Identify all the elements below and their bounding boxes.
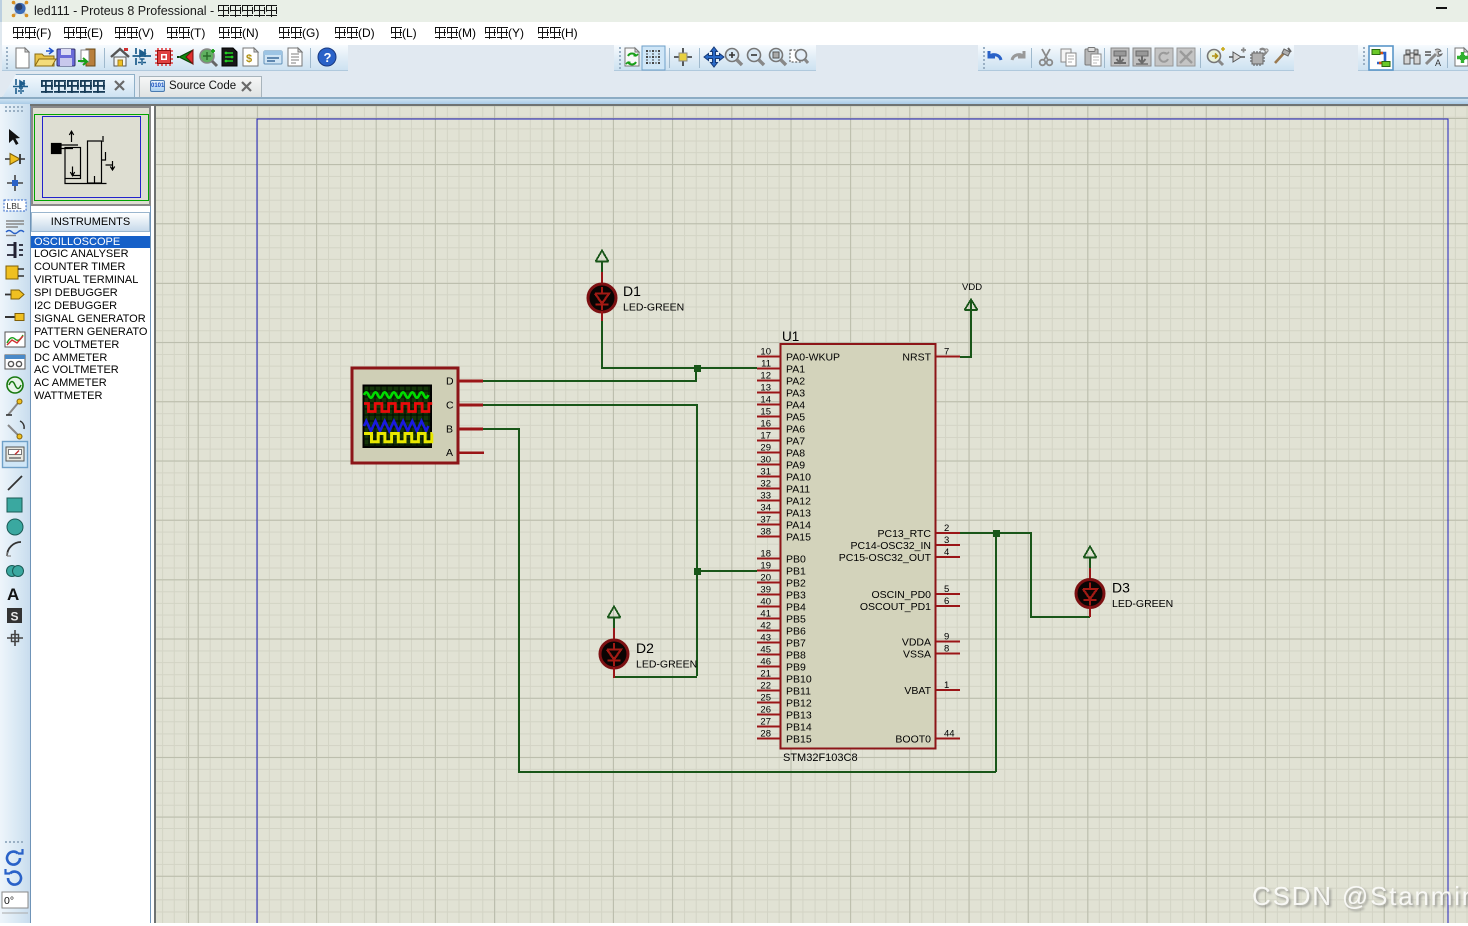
svg-text:LBL: LBL <box>7 201 22 211</box>
svg-text:39: 39 <box>760 585 771 596</box>
svg-text:14: 14 <box>760 395 771 406</box>
zoom in <box>726 49 743 66</box>
svg-text:LED-GREEN: LED-GREEN <box>636 659 697 671</box>
wire label tool <box>4 200 26 211</box>
voltage probe tool <box>6 399 22 415</box>
component tool <box>5 154 25 165</box>
left panel <box>30 106 151 923</box>
svg-text:U1: U1 <box>782 329 799 344</box>
rotate angle field <box>2 892 28 913</box>
D1 body <box>588 284 616 312</box>
wire junction C to PC13 stub <box>960 532 996 534</box>
svg-text:PA3: PA3 <box>786 388 805 400</box>
wire NRST to VDD <box>960 310 971 358</box>
op-amp U1 microcontroller body <box>781 329 936 764</box>
U1 pin 13 PA3 <box>757 383 805 400</box>
svg-text:PA7: PA7 <box>786 436 805 448</box>
LED D1 <box>588 251 684 322</box>
svg-text:4: 4 <box>944 547 949 558</box>
virtual instrument tool selected <box>3 442 28 468</box>
svg-text:10: 10 <box>760 347 771 358</box>
svg-text:1: 1 <box>944 680 949 691</box>
svg-text:6: 6 <box>944 596 949 607</box>
svg-text:A: A <box>446 447 453 459</box>
save <box>57 49 75 66</box>
origin marker tool <box>7 630 23 646</box>
U1 pin 32 PA11 <box>757 479 810 496</box>
svg-text:C: C <box>446 400 454 412</box>
wire scope B to bottom rail <box>483 428 996 772</box>
oscilloscope body <box>352 368 484 463</box>
svg-text:43: 43 <box>760 633 771 644</box>
svg-text:40: 40 <box>760 597 771 608</box>
design explorer <box>222 48 237 66</box>
left toolbar <box>0 104 30 923</box>
2d box tool <box>7 498 22 512</box>
svg-text:PB2: PB2 <box>786 578 806 590</box>
svg-text:OSCIN_PD0: OSCIN_PD0 <box>871 589 931 601</box>
title bar <box>0 0 1468 22</box>
bus tool <box>7 242 23 258</box>
D2 body <box>600 640 628 668</box>
decompose <box>1250 49 1268 66</box>
wire rail up to junction C <box>995 533 997 772</box>
copy <box>1061 49 1076 66</box>
wire junction C to D3 <box>996 532 1090 617</box>
wire junction B to PB1 <box>697 570 757 572</box>
undo <box>989 51 1001 60</box>
svg-text:PA0-WKUP: PA0-WKUP <box>786 352 840 364</box>
U1 pin 8 VSSA <box>903 644 960 661</box>
svg-text:$: $ <box>246 53 252 65</box>
tab bar <box>0 71 1468 98</box>
U1 pin 42 PB6 <box>757 621 806 638</box>
graph tool <box>5 332 25 347</box>
waveform red square <box>364 404 432 412</box>
cut <box>1040 49 1053 65</box>
2d arc tool <box>7 542 21 556</box>
svg-text:PB13: PB13 <box>786 710 812 722</box>
Source Code tab <box>139 76 262 98</box>
node C junction <box>993 530 1000 537</box>
scope pin C stub <box>458 404 483 407</box>
svg-text:PB14: PB14 <box>786 722 812 734</box>
sheet border <box>257 119 1448 923</box>
waveform green sine <box>364 392 428 398</box>
selection cursor tool <box>9 129 20 145</box>
tape recorder tool <box>5 355 25 369</box>
block rotate disabled <box>1155 48 1173 66</box>
svg-text:3: 3 <box>944 535 949 546</box>
svg-text:34: 34 <box>760 503 771 514</box>
svg-text:PA1: PA1 <box>786 364 805 376</box>
zoom area <box>790 50 808 64</box>
svg-text:28: 28 <box>760 729 771 740</box>
svg-text:11: 11 <box>761 359 771 370</box>
U1 pin 37 PA14 <box>757 515 811 532</box>
svg-text:LED-GREEN: LED-GREEN <box>1112 598 1173 610</box>
U1 pin 2 PC13_RTC <box>878 523 961 540</box>
LED D2 <box>600 607 697 679</box>
svg-text:PB1: PB1 <box>786 566 806 578</box>
svg-text:PA9: PA9 <box>786 460 805 472</box>
power terminal above D3 <box>1084 547 1097 570</box>
pan <box>704 47 724 67</box>
U1 pin 11 PA1 <box>757 359 805 376</box>
svg-text:PA14: PA14 <box>786 520 811 532</box>
svg-text:45: 45 <box>760 645 771 656</box>
terminal tool <box>5 290 24 299</box>
svg-text:27: 27 <box>760 717 771 728</box>
power terminal above D2 <box>608 607 621 630</box>
U1 pin 16 PA6 <box>757 419 805 436</box>
svg-text:20: 20 <box>760 573 771 584</box>
svg-text:PA8: PA8 <box>786 448 805 460</box>
svg-text:VDD: VDD <box>962 282 982 293</box>
2d text tool <box>7 585 19 604</box>
electrical check <box>264 51 282 64</box>
origin <box>674 48 692 66</box>
svg-text:33: 33 <box>760 491 771 502</box>
U1 pin 44 BOOT0 <box>895 729 960 746</box>
U1 pin 19 PB1 <box>757 561 806 578</box>
svg-text:42: 42 <box>760 621 771 632</box>
exit/import <box>78 49 95 66</box>
block delete disabled <box>1177 48 1195 66</box>
block move <box>1133 48 1151 66</box>
svg-text:38: 38 <box>760 527 771 538</box>
svg-text:7: 7 <box>944 347 949 358</box>
svg-text:0°: 0° <box>4 895 14 907</box>
svg-text:PB6: PB6 <box>786 626 806 638</box>
2d symbol tool <box>7 608 22 624</box>
svg-text:VDDA: VDDA <box>902 637 931 649</box>
svg-text:37: 37 <box>760 515 771 526</box>
U1 pin 29 PA8 <box>757 443 805 460</box>
U1 pin 38 PA15 <box>757 527 811 544</box>
svg-text:13: 13 <box>760 383 771 394</box>
U1 pin 43 PB7 <box>757 633 806 650</box>
svg-text:19: 19 <box>760 561 771 572</box>
menu bar <box>0 22 1468 45</box>
refresh <box>625 48 639 66</box>
help <box>318 48 336 66</box>
D2 anode lead <box>613 628 615 640</box>
svg-text:PB15: PB15 <box>786 734 812 746</box>
svg-text:30: 30 <box>760 455 771 466</box>
U1 pin 31 PA10 <box>757 467 811 484</box>
svg-text:PB7: PB7 <box>786 638 806 650</box>
svg-text:PA5: PA5 <box>786 412 805 424</box>
svg-text:21: 21 <box>760 669 771 680</box>
svg-text:B: B <box>446 424 453 436</box>
schematic capture <box>133 48 152 65</box>
svg-text:46: 46 <box>760 657 771 668</box>
svg-text:VBAT: VBAT <box>904 685 931 697</box>
generator tool <box>7 377 23 393</box>
svg-text:PC15-OSC32_OUT: PC15-OSC32_OUT <box>839 552 932 564</box>
U1 pin 30 PA9 <box>757 455 805 472</box>
svg-text:A: A <box>1435 58 1441 68</box>
D3 body <box>1076 580 1104 608</box>
pcb layout <box>155 48 173 66</box>
svg-text:PB8: PB8 <box>786 650 806 662</box>
drag handles <box>6 47 1365 69</box>
block copy <box>1111 48 1129 66</box>
open <box>35 48 56 66</box>
U1 pin 10 PA0-WKUP <box>757 347 840 364</box>
svg-text:OSCOUT_PD1: OSCOUT_PD1 <box>860 601 931 613</box>
svg-text:32: 32 <box>760 479 771 490</box>
goto search <box>1208 47 1226 65</box>
toolbar <box>0 45 1468 71</box>
LED D3 <box>1076 547 1173 618</box>
svg-text:PB12: PB12 <box>786 698 812 710</box>
svg-text:PA10: PA10 <box>786 472 811 484</box>
svg-text:D2: D2 <box>636 640 654 656</box>
U1 pin 7 NRST <box>902 347 960 364</box>
U1 pin 12 PA2 <box>757 371 805 388</box>
zoom fit <box>770 49 787 66</box>
svg-text:2: 2 <box>944 523 949 534</box>
svg-text:44: 44 <box>944 729 955 740</box>
svg-text:D1: D1 <box>623 283 641 299</box>
svg-text:BOOT0: BOOT0 <box>895 734 931 746</box>
oscilloscope screen <box>364 386 432 448</box>
U1 pin 34 PA13 <box>757 503 811 520</box>
svg-text:LED-GREEN: LED-GREEN <box>623 302 684 314</box>
svg-text:PB5: PB5 <box>786 614 806 626</box>
grid toggle pressed <box>642 46 665 70</box>
svg-text:PB4: PB4 <box>786 602 806 614</box>
U1 pin 45 PB8 <box>757 645 806 662</box>
U1 pin 25 PB12 <box>757 693 812 710</box>
svg-text:D: D <box>446 376 454 388</box>
U1 pin 22 PB11 <box>757 681 811 698</box>
wire D1 to PA1 <box>601 320 757 368</box>
U1 pin 46 PB9 <box>757 657 806 674</box>
separator <box>5 841 23 843</box>
svg-text:22: 22 <box>760 681 771 692</box>
svg-text:41: 41 <box>760 609 771 620</box>
make device <box>1275 48 1291 63</box>
3d viewer <box>177 50 193 64</box>
svg-text:PB10: PB10 <box>786 674 812 686</box>
D3 anode lead <box>1089 568 1091 580</box>
canvas <box>154 106 1468 923</box>
svg-text:26: 26 <box>760 705 771 716</box>
ares <box>200 49 217 66</box>
2d line tool <box>8 476 22 490</box>
U1 pin 1 VBAT <box>904 680 960 697</box>
svg-text:17: 17 <box>760 431 771 442</box>
D2 cathode lead <box>613 667 615 678</box>
node A junction <box>694 365 701 372</box>
U1 pin 40 PB4 <box>757 597 806 614</box>
binoculars <box>1404 50 1420 64</box>
instruments list <box>31 236 150 926</box>
add component <box>1229 48 1246 63</box>
wire scope C down to D2 <box>483 404 697 677</box>
selected nav icon <box>1369 46 1393 70</box>
svg-text:25: 25 <box>760 693 771 704</box>
U1 pin 4 PC15-OSC32_OUT <box>839 547 960 564</box>
wire scope D to junction A <box>483 368 696 381</box>
svg-text:15: 15 <box>760 407 771 418</box>
svg-text:PB9: PB9 <box>786 662 806 674</box>
current probe tool <box>8 421 24 439</box>
D1 cathode lead <box>601 311 603 321</box>
svg-text:STM32F103C8: STM32F103C8 <box>783 752 858 764</box>
U1 pin 17 PA7 <box>757 431 805 448</box>
svg-text:PA11: PA11 <box>786 484 810 496</box>
svg-text:PB11: PB11 <box>786 686 811 698</box>
instruments header <box>31 212 150 232</box>
svg-text:PA2: PA2 <box>786 376 805 388</box>
2d path tool <box>7 566 24 577</box>
waveform blue sine <box>364 421 428 431</box>
svg-text:PC13_RTC: PC13_RTC <box>878 528 932 540</box>
device pin tool <box>5 314 24 321</box>
U1 pin 27 PB14 <box>757 717 812 734</box>
D1 anode lead <box>601 272 603 284</box>
svg-text:PA6: PA6 <box>786 424 805 436</box>
svg-text:29: 29 <box>760 443 771 454</box>
watermark <box>1252 881 1468 912</box>
2d circle tool <box>7 519 23 535</box>
paste <box>1085 48 1101 67</box>
svg-text:PB0: PB0 <box>786 554 806 566</box>
junction dot tool <box>7 175 23 191</box>
U1 pin 21 PB10 <box>757 669 812 686</box>
new sheet <box>1455 48 1468 66</box>
U1 pin 18 PB0 <box>757 549 806 566</box>
svg-text:D3: D3 <box>1112 580 1130 596</box>
scope pin B stub <box>458 428 483 431</box>
power terminal VDD <box>965 300 978 311</box>
svg-text:18: 18 <box>760 549 771 560</box>
text doc <box>288 48 302 66</box>
rotate ccw control <box>6 869 21 885</box>
U1 pin 28 PB15 <box>757 729 812 746</box>
zoom out <box>748 49 765 66</box>
svg-text:?: ? <box>324 50 332 65</box>
svg-text:PA12: PA12 <box>786 496 811 508</box>
node B junction <box>694 568 701 575</box>
U1 pin 3 PC14-OSC32_IN <box>850 535 960 552</box>
U1 pin 15 PA5 <box>757 407 805 424</box>
svg-text:VSSA: VSSA <box>903 649 931 661</box>
svg-text:8: 8 <box>944 644 949 655</box>
home <box>111 48 129 66</box>
U1 pin 39 PB3 <box>757 585 806 602</box>
U1 pin 20 PB2 <box>757 573 806 590</box>
wrench A <box>1425 49 1442 68</box>
svg-text:PC14-OSC32_IN: PC14-OSC32_IN <box>850 540 931 552</box>
svg-text:PA15: PA15 <box>786 532 811 544</box>
scope pin A stub <box>458 451 484 454</box>
new file <box>16 48 29 68</box>
bom <box>243 48 258 66</box>
scope pin D stub <box>458 380 483 383</box>
svg-text:31: 31 <box>760 467 771 478</box>
subcircuit tool <box>6 266 24 279</box>
separators <box>105 48 1448 68</box>
D3 cathode lead <box>1089 607 1091 618</box>
svg-text:9: 9 <box>944 632 949 643</box>
U1 pin 9 VDDA <box>902 632 960 649</box>
svg-text:PB3: PB3 <box>786 590 806 602</box>
svg-text:12: 12 <box>760 371 771 382</box>
power terminal above D1 <box>596 251 609 274</box>
U1 pin 41 PB5 <box>757 609 806 626</box>
U1 pin 26 PB13 <box>757 705 812 722</box>
svg-text:5: 5 <box>944 584 949 595</box>
text script tool <box>6 221 24 236</box>
U1 pin 5 OSCIN_PD0 <box>871 584 960 601</box>
svg-text:PA4: PA4 <box>786 400 805 412</box>
svg-text:16: 16 <box>760 419 771 430</box>
active tab 原理图绘制 <box>2 74 135 98</box>
U1 pin 6 OSCOUT_PD1 <box>860 596 960 613</box>
U1 pin 33 PA12 <box>757 491 811 508</box>
waveform yellow square <box>364 434 432 442</box>
svg-text:NRST: NRST <box>902 352 931 364</box>
redo <box>1012 51 1024 60</box>
rotate cw control <box>7 849 22 865</box>
preview pane <box>31 106 151 206</box>
svg-text:S: S <box>11 610 19 624</box>
U1 pin 14 PA4 <box>757 395 805 412</box>
svg-text:A: A <box>7 585 19 604</box>
svg-text:PA13: PA13 <box>786 508 811 520</box>
